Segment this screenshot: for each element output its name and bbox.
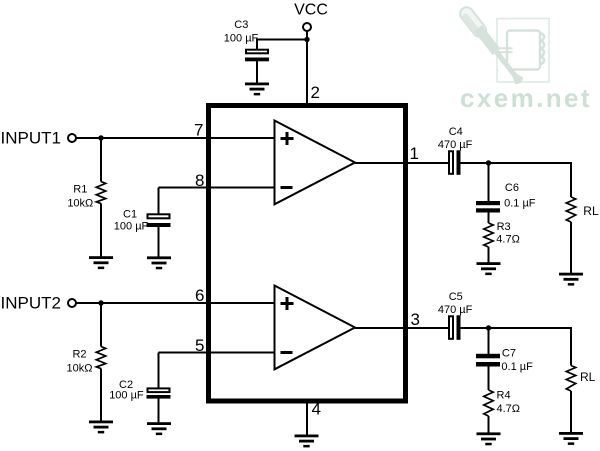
svg-text:8: 8 [195,171,204,190]
svg-text:R4: R4 [497,390,511,402]
svg-text:RL: RL [583,204,599,218]
svg-text:7: 7 [194,121,203,140]
svg-text:C4: C4 [449,126,463,138]
svg-text:470 µF: 470 µF [438,304,473,316]
svg-text:R3: R3 [497,221,511,233]
svg-text:3: 3 [411,310,420,329]
svg-text:1: 1 [410,144,419,163]
svg-text:2: 2 [311,83,320,102]
svg-text:RL: RL [580,370,596,384]
svg-text:6: 6 [195,286,204,305]
svg-text:C3: C3 [234,19,248,31]
svg-text:0.1 µF: 0.1 µF [504,197,536,209]
svg-text:4: 4 [312,400,321,419]
svg-text:R2: R2 [72,348,86,360]
svg-text:C6: C6 [505,182,519,194]
svg-text:INPUT2: INPUT2 [1,294,61,313]
svg-text:C7: C7 [502,348,516,360]
svg-text:0.1 µF: 0.1 µF [501,361,533,373]
svg-text:100 µF: 100 µF [114,221,149,233]
svg-text:INPUT1: INPUT1 [1,129,61,148]
svg-text:10kΩ: 10kΩ [67,363,93,375]
svg-text:C1: C1 [123,209,137,221]
svg-text:C5: C5 [449,291,463,303]
svg-text:4.7Ω: 4.7Ω [497,403,521,415]
svg-text:5: 5 [195,336,204,355]
svg-text:100 µF: 100 µF [224,32,259,44]
svg-text:VCC: VCC [294,2,328,19]
svg-text:4.7Ω: 4.7Ω [496,233,520,245]
svg-text:10kΩ: 10kΩ [67,198,93,210]
svg-text:100 µF: 100 µF [109,390,144,402]
svg-text:R1: R1 [73,183,87,195]
svg-text:470 µF: 470 µF [438,139,473,151]
svg-text:cxem.net: cxem.net [460,83,592,113]
